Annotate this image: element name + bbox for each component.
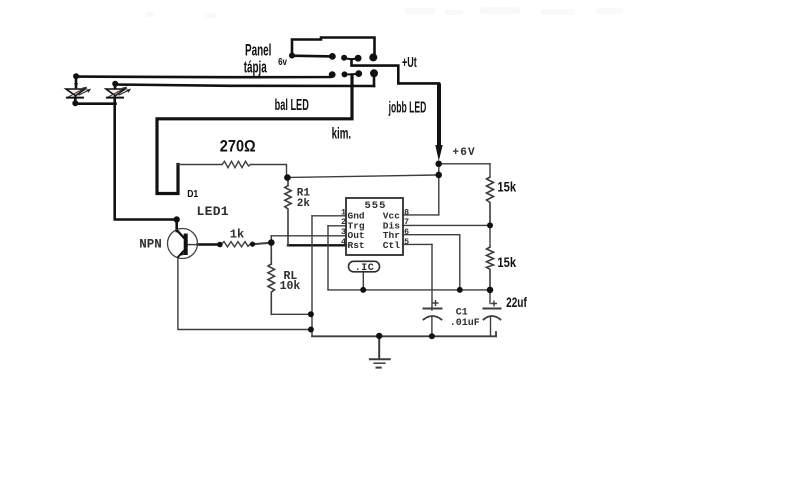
- svg-text:6: 6: [404, 227, 409, 237]
- svg-text:+6V: +6V: [452, 147, 475, 159]
- svg-text:7: 7: [404, 217, 409, 227]
- svg-text:Ctl: Ctl: [383, 240, 400, 251]
- svg-text:Panel: Panel: [245, 41, 271, 59]
- svg-text:bal LED: bal LED: [275, 95, 309, 113]
- svg-text:6v: 6v: [278, 56, 287, 67]
- svg-text:NPN: NPN: [139, 238, 162, 252]
- svg-text:270Ω: 270Ω: [220, 137, 256, 155]
- svg-text:tápja: tápja: [244, 58, 267, 76]
- svg-text:D1: D1: [187, 188, 199, 200]
- svg-text:LED1: LED1: [197, 204, 229, 219]
- svg-text:kim.: kim.: [332, 124, 352, 142]
- svg-text:+Ut: +Ut: [402, 54, 417, 71]
- svg-text:1: 1: [341, 207, 346, 217]
- svg-text:4: 4: [341, 237, 346, 247]
- svg-text:2k: 2k: [297, 198, 311, 210]
- svg-text:C1: C1: [456, 307, 468, 318]
- svg-text:.01uF: .01uF: [450, 318, 480, 329]
- svg-text:3: 3: [341, 227, 346, 237]
- svg-text:15k: 15k: [497, 255, 517, 270]
- svg-text:15k: 15k: [497, 179, 517, 194]
- svg-text:8: 8: [404, 207, 409, 217]
- svg-text:10k: 10k: [280, 280, 301, 293]
- svg-text:Rst: Rst: [348, 240, 365, 251]
- svg-text:1k: 1k: [230, 227, 244, 241]
- svg-text:.IC: .IC: [355, 263, 375, 274]
- svg-text:jobb LED: jobb LED: [388, 99, 426, 116]
- svg-text:5: 5: [404, 237, 409, 247]
- svg-text:2: 2: [341, 217, 346, 227]
- svg-text:22uf: 22uf: [506, 294, 527, 310]
